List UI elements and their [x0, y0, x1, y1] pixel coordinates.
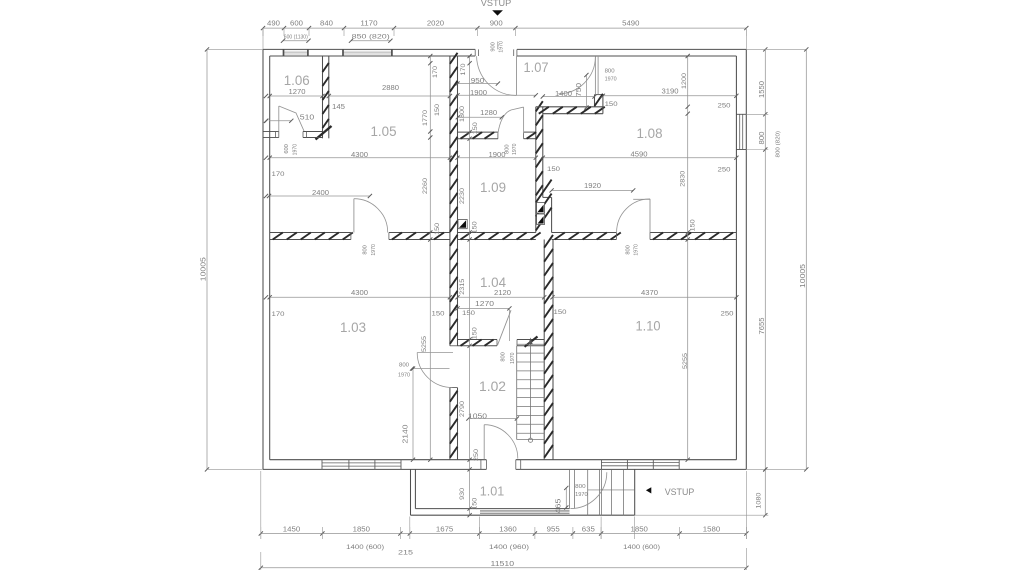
svg-text:5255: 5255	[682, 353, 689, 369]
door D900 VSTUP top wall	[474, 49, 476, 56]
svg-text:635: 635	[582, 525, 595, 534]
svg-text:1450: 1450	[283, 525, 300, 534]
wall W10 top of 1.02 with door opening	[458, 339, 498, 341]
svg-text:1270: 1270	[475, 301, 494, 308]
svg-text:150: 150	[462, 310, 475, 317]
staircase in 1.02	[516, 346, 518, 440]
dim 1920 row y190	[552, 189, 634, 191]
svg-text:1.08: 1.08	[637, 126, 663, 141]
svg-text:1850: 1850	[353, 525, 370, 534]
svg-text:4590: 4590	[631, 149, 648, 158]
svg-text:1970: 1970	[605, 77, 617, 83]
dim row y96 2880	[329, 95, 450, 97]
dim chain VA x430	[429, 56, 431, 460]
svg-text:600: 600	[284, 144, 290, 154]
svg-text:2260: 2260	[422, 178, 429, 194]
svg-text:150: 150	[432, 311, 445, 318]
left wall dim ticks	[264, 94, 268, 98]
dim row y158 4300	[270, 157, 450, 159]
svg-text:1200: 1200	[681, 73, 688, 89]
door D750 1.07 to 1.08	[594, 57, 596, 95]
svg-text:1.03: 1.03	[340, 320, 366, 335]
svg-text:2315: 2315	[459, 278, 466, 294]
left dim 10005	[206, 49, 208, 469]
svg-text:1.02: 1.02	[479, 379, 506, 394]
dim row y96 1400	[543, 96, 595, 98]
bottom dim chain row1	[261, 533, 747, 535]
entry arrow top	[492, 10, 503, 15]
svg-text:1280: 1280	[480, 108, 497, 117]
svg-text:800: 800	[399, 363, 409, 369]
svg-text:1080: 1080	[756, 492, 763, 508]
svg-text:850 (820): 850 (820)	[352, 34, 390, 41]
svg-text:150: 150	[472, 327, 479, 339]
entrance arrow	[646, 487, 651, 493]
window top 850(820)	[342, 51, 392, 55]
dim chain VD x687.7	[687, 56, 689, 460]
svg-text:150: 150	[547, 166, 560, 173]
svg-text:465: 465	[556, 498, 563, 513]
svg-text:800: 800	[605, 68, 615, 74]
dim 510 door 1.06	[269, 120, 292, 122]
svg-text:1970: 1970	[512, 143, 518, 155]
wall W3 corridor left	[449, 56, 451, 346]
door D1050 1.02 to 1.01	[480, 460, 482, 470]
svg-text:1970: 1970	[398, 372, 410, 378]
svg-text:150: 150	[472, 221, 479, 233]
chimney markers on W4	[537, 203, 545, 214]
chimney marker at corridor	[458, 220, 467, 229]
right dim chain 1550/800/7655	[764, 49, 766, 469]
door jambs W6 openings	[350, 233, 352, 240]
dim 1050 door	[468, 418, 517, 420]
wall W2 below 1.06 with door opening	[264, 131, 279, 133]
svg-text:600: 600	[290, 19, 303, 28]
svg-text:1580: 1580	[703, 525, 720, 534]
svg-text:215: 215	[398, 550, 413, 557]
svg-text:1.10: 1.10	[636, 319, 661, 334]
svg-text:11510: 11510	[491, 559, 515, 568]
window top-left 600(1130)	[283, 51, 309, 55]
svg-text:800: 800	[363, 245, 369, 255]
svg-text:1400 (600): 1400 (600)	[346, 544, 384, 551]
wall W8 below 1.07	[536, 106, 603, 108]
svg-text:2140: 2140	[403, 424, 410, 443]
svg-text:2400: 2400	[312, 188, 329, 197]
door D800 1.02 in W3	[417, 352, 453, 354]
svg-text:510: 510	[300, 113, 315, 122]
wall W7 top of 1.09 with door opening	[458, 131, 498, 133]
dim 465 entry step	[565, 488, 567, 508]
svg-text:1400 (600): 1400 (600)	[623, 544, 660, 551]
svg-text:VSTUP: VSTUP	[665, 487, 695, 497]
svg-text:150: 150	[605, 101, 618, 108]
stair walking line	[530, 341, 532, 439]
dim 950 corridor	[458, 83, 498, 85]
svg-text:1170: 1170	[360, 19, 377, 28]
dim 800 door line	[412, 368, 450, 370]
svg-text:4300: 4300	[351, 150, 368, 159]
svg-text:750: 750	[576, 83, 583, 97]
dim chain VB x469.6	[469, 56, 471, 515]
dim 1280 door	[458, 116, 502, 118]
dim 2400 row y196	[269, 195, 370, 197]
svg-text:4300: 4300	[351, 288, 368, 297]
svg-text:2880: 2880	[382, 83, 399, 92]
svg-text:250: 250	[721, 311, 734, 318]
svg-text:1770: 1770	[422, 110, 429, 126]
svg-text:1400 (960): 1400 (960)	[489, 544, 529, 551]
svg-text:800 (820): 800 (820)	[776, 131, 782, 158]
wall W9 between 1.07 and 1.08	[594, 95, 596, 107]
window bottom-right triple	[602, 462, 680, 464]
window right wall 800(820)	[736, 113, 746, 115]
svg-text:1.05: 1.05	[371, 124, 397, 139]
svg-text:150: 150	[690, 219, 697, 231]
svg-text:10005: 10005	[798, 264, 807, 288]
door D1920 1.10 in W6	[617, 199, 650, 232]
right dim 10005	[805, 49, 807, 469]
svg-text:1.06: 1.06	[284, 73, 310, 88]
dim 1270 door 1.04	[458, 307, 510, 309]
svg-text:1850: 1850	[631, 525, 648, 534]
svg-text:1270: 1270	[289, 87, 306, 96]
svg-text:250: 250	[718, 167, 731, 174]
svg-text:7655: 7655	[759, 317, 766, 334]
svg-text:800: 800	[626, 245, 632, 255]
svg-text:2020: 2020	[427, 19, 444, 28]
svg-text:170: 170	[272, 311, 285, 318]
svg-text:5255: 5255	[421, 336, 428, 352]
svg-text:1360: 1360	[499, 525, 516, 534]
svg-text:1.09: 1.09	[480, 180, 506, 195]
wall W4 right of 1.09	[535, 107, 537, 233]
svg-text:800: 800	[575, 484, 586, 490]
svg-text:600 (1130): 600 (1130)	[284, 35, 308, 41]
door D1030 1.03 in W6	[353, 199, 355, 233]
svg-text:1550: 1550	[759, 81, 766, 98]
dim 750 door	[585, 75, 587, 108]
dim row y297 2120	[458, 296, 545, 298]
svg-text:955: 955	[547, 525, 560, 534]
svg-text:1970: 1970	[371, 244, 377, 256]
entry landing line	[588, 489, 635, 491]
door jambs W7 opening	[497, 132, 499, 139]
top dim secondary 600(1130)	[283, 40, 309, 42]
svg-text:900: 900	[490, 19, 503, 28]
svg-text:250: 250	[473, 449, 480, 461]
svg-text:1.04: 1.04	[480, 275, 506, 290]
svg-text:10005: 10005	[199, 257, 208, 281]
svg-text:1970: 1970	[499, 41, 505, 53]
dim row y96 1900 corridor	[458, 94, 536, 96]
svg-text:VSTUP: VSTUP	[481, 0, 512, 8]
svg-text:1400: 1400	[555, 89, 572, 98]
wall W5 right of 1.02 stair	[543, 240, 545, 460]
svg-text:1.07: 1.07	[524, 60, 549, 75]
dim row y297 4300	[270, 296, 450, 298]
vstup door dim ext line	[497, 42, 499, 50]
svg-text:800: 800	[501, 352, 507, 362]
wall W6 middle horizontal	[270, 232, 351, 234]
svg-text:900: 900	[491, 42, 497, 52]
svg-text:150: 150	[434, 223, 441, 235]
svg-text:150: 150	[472, 497, 479, 509]
svg-text:170: 170	[432, 66, 439, 78]
window bottom-left triple	[322, 462, 401, 464]
porch 1.01 inner wall	[414, 469, 416, 508]
svg-text:5490: 5490	[622, 19, 639, 28]
bottom dim chain row2 11510	[261, 567, 747, 569]
svg-text:170: 170	[272, 171, 285, 178]
door D510 in W2 room 1.06	[278, 106, 280, 132]
svg-text:840: 840	[320, 19, 333, 28]
svg-text:4370: 4370	[641, 288, 658, 297]
svg-text:1920: 1920	[584, 181, 601, 190]
dim 2140	[412, 369, 414, 460]
entry steps	[569, 470, 571, 509]
svg-text:1050: 1050	[468, 413, 487, 420]
dim row y297 4370	[553, 296, 737, 298]
outer wall right	[745, 49, 747, 469]
svg-text:1970: 1970	[510, 352, 516, 364]
svg-text:1900: 1900	[470, 88, 487, 97]
door D1270 1.04 to 1.02	[498, 310, 512, 345]
svg-text:1900: 1900	[489, 150, 506, 159]
door mat grate	[480, 509, 570, 511]
svg-text:3190: 3190	[662, 87, 679, 96]
outer wall top	[263, 48, 475, 50]
dim row y96 3190	[603, 95, 737, 97]
bottom extension lines	[260, 471, 262, 539]
outer wall left	[262, 49, 264, 469]
top dim chain	[263, 27, 746, 29]
svg-text:490: 490	[267, 19, 280, 28]
svg-text:2830: 2830	[680, 170, 687, 186]
svg-text:1970: 1970	[292, 144, 298, 156]
wall W1 between 1.06 and 1.05	[322, 56, 324, 138]
outer wall bottom	[263, 468, 486, 470]
svg-text:2230: 2230	[459, 188, 466, 204]
svg-text:145: 145	[332, 104, 345, 111]
door D1280 in W7	[498, 107, 524, 133]
svg-text:150: 150	[472, 122, 479, 134]
svg-text:250: 250	[718, 102, 731, 109]
svg-text:1.01: 1.01	[480, 485, 505, 499]
top dim secondary 850(820)	[351, 40, 390, 42]
dim row y96 1270	[270, 95, 323, 97]
svg-text:1675: 1675	[436, 525, 453, 534]
dim row y158 1900	[458, 157, 536, 159]
svg-text:1800: 1800	[459, 106, 466, 122]
svg-text:1970: 1970	[575, 492, 588, 498]
entrance door D-1.01 arc	[570, 472, 606, 508]
svg-text:800: 800	[759, 131, 766, 144]
porch 1.01 outer wall	[410, 469, 412, 515]
svg-text:150: 150	[434, 104, 441, 116]
door jambs W10 opening	[496, 340, 498, 346]
svg-text:950: 950	[471, 76, 485, 85]
svg-text:2790: 2790	[459, 401, 466, 417]
svg-text:150: 150	[554, 309, 567, 316]
svg-text:1970: 1970	[634, 244, 640, 256]
right dim 1080 porch	[764, 469, 766, 515]
svg-text:170: 170	[460, 63, 467, 75]
dim row y158 4590	[543, 157, 737, 159]
svg-text:930: 930	[459, 488, 466, 500]
